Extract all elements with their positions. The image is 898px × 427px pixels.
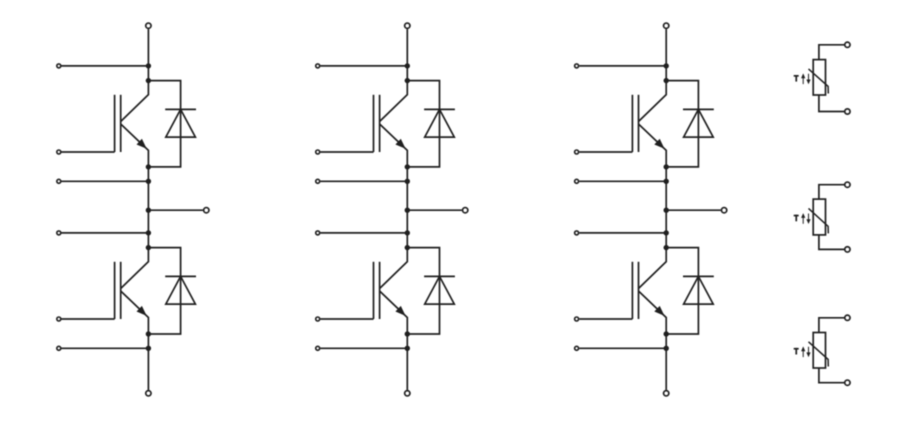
thermistor NTC2 (809, 199, 829, 235)
junction: collector node of T4 (405, 245, 410, 250)
wire: freewheel diode D3 branch (407, 81, 439, 167)
terminal: DC- emitter E6 (column 3) (664, 391, 669, 396)
wire: auxiliary collector lead C6 (579, 232, 666, 234)
wire: phase output lead (407, 209, 462, 211)
terminal: gate G2 (57, 317, 61, 321)
wire: top bus segment (147, 29, 149, 81)
diode D1 (anti-parallel freewheeling) (165, 109, 196, 137)
junction: phase output node (146, 208, 151, 213)
wire: auxiliary collector lead C1 (62, 65, 149, 67)
junction: emitter node of T1 (146, 164, 151, 169)
terminal: NTC3 pin 2 (845, 380, 850, 385)
junction: emitter node of T2 (146, 331, 151, 336)
terminal: aux collector C4 (316, 231, 320, 235)
wire: gate lead G5 (579, 151, 632, 153)
junction: bus / aux emitter (405, 179, 410, 184)
junction: bus / aux emitter lower (146, 346, 151, 351)
IGBT T3 (374, 81, 408, 167)
wire: bottom bus segment (406, 334, 408, 390)
junction: bus / aux collector lower (664, 230, 669, 235)
wire: gate lead G6 (579, 318, 632, 320)
IGBT T4 (374, 248, 408, 334)
wire: auxiliary emitter lead E3 (320, 180, 407, 182)
junction: phase output node (664, 208, 669, 213)
terminal: gate G4 (316, 317, 320, 321)
junction: bus / aux collector lower (146, 230, 151, 235)
terminal: NTC3 pin 1 (845, 315, 850, 320)
junction: emitter node of T4 (405, 331, 410, 336)
wire: auxiliary emitter lead E4 (320, 347, 407, 349)
diode D2 (anti-parallel freewheeling) (165, 276, 196, 304)
junction: emitter node of T6 (664, 331, 669, 336)
wire: bottom bus segment (147, 334, 149, 390)
wire: freewheel diode D1 branch (148, 81, 180, 167)
wire: NTC2 top lead (819, 185, 844, 199)
wire: gate lead G1 (62, 151, 115, 153)
diode D6 (anti-parallel freewheeling) (683, 276, 714, 304)
terminal: NTC2 pin 2 (845, 247, 850, 252)
terminal: phase output AC (column 2) (463, 208, 468, 213)
junction: collector node of T6 (664, 245, 669, 250)
terminal: DC- emitter E4 (column 2) (405, 391, 410, 396)
label: T with arrows (NTC3 temperature dependence) (794, 346, 811, 357)
wire: auxiliary collector lead C2 (62, 232, 149, 234)
wire: phase output lead (666, 209, 721, 211)
diode D3 (anti-parallel freewheeling) (424, 109, 455, 137)
wire: NTC3 top lead (819, 318, 844, 333)
terminal: gate G5 (575, 150, 579, 154)
terminal: aux collector C3 (316, 64, 320, 68)
thermistor NTC3 (809, 333, 829, 369)
label: T with arrows (NTC1 temperature dependence) (794, 73, 811, 84)
wire: NTC1 top lead (819, 45, 844, 60)
terminal: DC+ collector C1 (column 1) (146, 23, 151, 28)
junction: top bus / aux collector (146, 63, 151, 68)
terminal: aux collector C1 (57, 64, 61, 68)
IGBT T1 (115, 81, 149, 167)
terminal: NTC1 pin 2 (845, 109, 850, 114)
wire: top bus segment (665, 29, 667, 81)
junction: emitter node of T5 (664, 164, 669, 169)
junction: bus / aux emitter (664, 179, 669, 184)
wire: gate lead G2 (62, 318, 115, 320)
wire: auxiliary collector lead C5 (579, 65, 666, 67)
wire: auxiliary emitter lead E1 (62, 180, 149, 182)
wire: auxiliary emitter lead E2 (62, 347, 149, 349)
wire: mid bus segment (665, 167, 667, 248)
wire: auxiliary emitter lead E6 (579, 347, 666, 349)
wire: gate lead G3 (320, 151, 373, 153)
terminal: aux emitter E1 (57, 179, 61, 183)
wire: NTC2 bottom lead (819, 235, 844, 250)
terminal: gate G3 (316, 150, 320, 154)
junction: collector node of T3 (405, 78, 410, 83)
IGBT T2 (115, 248, 149, 334)
junction: bus / aux emitter (146, 179, 151, 184)
terminal: DC+ collector C5 (column 3) (664, 23, 669, 28)
terminal: aux emitter E2 (57, 346, 61, 350)
terminal: NTC1 pin 1 (845, 42, 850, 47)
terminal: DC- emitter E2 (column 1) (146, 391, 151, 396)
terminal: gate G6 (575, 317, 579, 321)
terminal: aux emitter E6 (575, 346, 579, 350)
wire: gate lead G4 (320, 318, 373, 320)
wire: NTC3 bottom lead (819, 368, 844, 383)
junction: top bus / aux collector (664, 63, 669, 68)
terminal: aux collector C5 (575, 64, 579, 68)
wire: freewheel diode D4 branch (407, 248, 439, 334)
wire: phase output lead (148, 209, 203, 211)
junction: bus / aux collector lower (405, 230, 410, 235)
wire: auxiliary collector lead C3 (320, 65, 407, 67)
wire: freewheel diode D5 branch (666, 81, 698, 167)
terminal: NTC2 pin 1 (845, 182, 850, 187)
IGBT T6 (632, 248, 666, 334)
junction: collector node of T5 (664, 78, 669, 83)
terminal: aux emitter E3 (316, 179, 320, 183)
wire: mid bus segment (406, 167, 408, 248)
terminal: aux emitter E5 (575, 179, 579, 183)
wire: bottom bus segment (665, 334, 667, 390)
diode D5 (anti-parallel freewheeling) (683, 109, 714, 137)
junction: bus / aux emitter lower (405, 346, 410, 351)
junction: emitter node of T3 (405, 164, 410, 169)
wire: mid bus segment (147, 167, 149, 248)
wire: top bus segment (406, 29, 408, 81)
junction: bus / aux emitter lower (664, 346, 669, 351)
thermistor NTC1 (809, 60, 829, 95)
junction: phase output node (405, 208, 410, 213)
wire: NTC1 bottom lead (819, 95, 844, 112)
terminal: phase output AC (column 3) (721, 208, 726, 213)
terminal: phase output AC (column 1) (204, 208, 209, 213)
terminal: aux emitter E4 (316, 346, 320, 350)
wire: auxiliary emitter lead E5 (579, 180, 666, 182)
terminal: aux collector C2 (57, 231, 61, 235)
junction: collector node of T2 (146, 245, 151, 250)
diode D4 (anti-parallel freewheeling) (424, 276, 455, 304)
junction: top bus / aux collector (405, 63, 410, 68)
terminal: aux collector C6 (575, 231, 579, 235)
label: T with arrows (NTC2 temperature dependence) (794, 213, 811, 224)
IGBT T5 (632, 81, 666, 167)
junction: collector node of T1 (146, 78, 151, 83)
terminal: gate G1 (57, 150, 61, 154)
terminal: DC+ collector C3 (column 2) (405, 23, 410, 28)
wire: auxiliary collector lead C4 (320, 232, 407, 234)
wire: freewheel diode D2 branch (148, 248, 180, 334)
wire: freewheel diode D6 branch (666, 248, 698, 334)
